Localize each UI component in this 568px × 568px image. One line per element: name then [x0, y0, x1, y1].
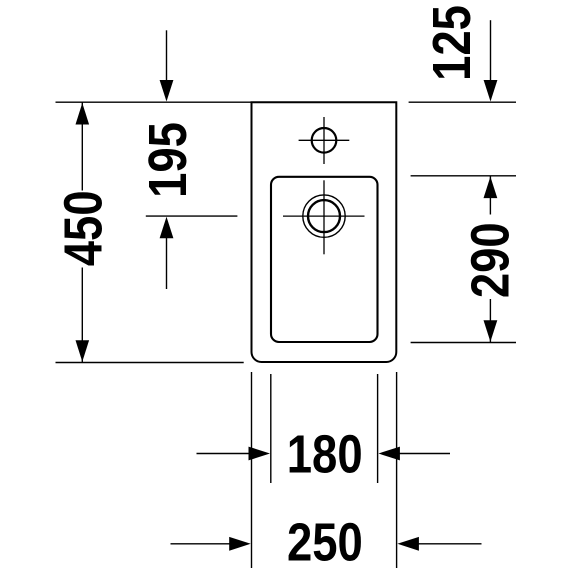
svg-text:290: 290 [460, 222, 520, 298]
dimension 195 arrow bottom (outside, pointing up) [166, 238, 168, 289]
dimension 180 right arrow (pointing left) [399, 453, 450, 455]
dimension 450 line upper segment [81, 102, 83, 190]
tap hole circle [312, 128, 337, 153]
tap hole centerline vertical [323, 117, 325, 164]
dimension 250 left arrow (pointing right) [171, 543, 231, 545]
svg-text:125: 125 [422, 5, 482, 81]
extension line 290 top right [411, 175, 516, 177]
svg-text:250: 250 [287, 512, 363, 568]
extension line basin bottom level (450 bottom) [56, 362, 244, 364]
extension line top right segment [409, 101, 516, 103]
extension line below basin right outer (250 right) [396, 372, 398, 568]
drain outer circle [303, 195, 345, 237]
dimension 450 arrow down [76, 340, 90, 362]
svg-text:180: 180 [287, 424, 363, 484]
dimension 450 line lower segment [81, 268, 83, 363]
extension line below basin left inner (180 left) [270, 374, 272, 483]
inner basin rim [271, 177, 378, 342]
dimension 125 line (pointing down to basin top) [490, 20, 492, 80]
dimension 290 line lower segment [489, 299, 491, 343]
tap hole centerline horizontal [299, 139, 350, 141]
svg-text:195: 195 [138, 122, 198, 198]
drain centerline vertical [323, 180, 325, 254]
dimension 125 arrow down [484, 80, 498, 102]
dimension 450 arrow up [76, 103, 90, 125]
dimension 290 arrow up [484, 177, 498, 199]
extension line 290 bottom right [411, 342, 516, 344]
extension line drain center level (195 bottom) [146, 215, 238, 217]
extension line below basin left outer (250 left) [251, 372, 253, 568]
drain centerline horizontal [283, 215, 365, 217]
dimension 195 arrow top (outside, pointing down) [166, 30, 168, 80]
dimension 180 left arrow (pointing right) [197, 453, 250, 455]
svg-text:450: 450 [53, 190, 113, 266]
dimension 290 arrow down [484, 320, 498, 342]
dimension 250 right arrow (pointing left) [418, 543, 482, 545]
extension line top (basin top level) [56, 101, 252, 103]
basin outer outline [252, 102, 397, 362]
extension line below basin right inner (180 right) [377, 374, 379, 483]
dimension 290 line upper segment [489, 176, 491, 215]
drain inner circle [308, 200, 340, 232]
